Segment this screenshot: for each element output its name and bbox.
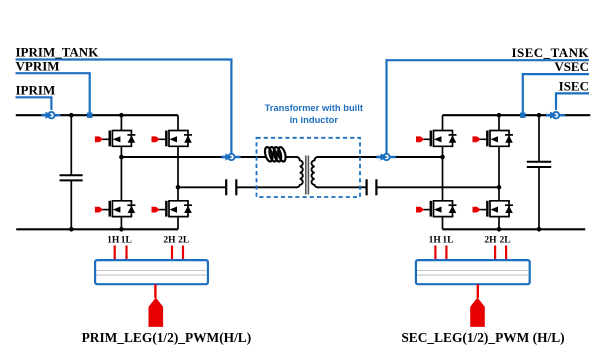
svg-text:2H: 2H [484, 236, 497, 246]
junction: primary cap / top rail [69, 113, 74, 118]
label: Transformer with built in inductor [265, 102, 363, 125]
wire: secondary output cap branch top [538, 115, 540, 162]
node: ISEC_TANK current probe [377, 153, 396, 160]
gate tick 1H secondary [434, 246, 436, 261]
junction: secondary cap / bottom rail [537, 227, 542, 232]
transformer T1 secondary winding [312, 157, 318, 187]
gate tick 2L primary [182, 246, 184, 261]
junction: primary leg1 / bottom rail [119, 227, 124, 232]
node: IPRIM current probe [41, 112, 60, 119]
wire: sec leg2 middle [498, 146, 500, 201]
svg-text:2L: 2L [178, 236, 189, 246]
svg-text:1L: 1L [442, 236, 453, 246]
wire: leg1 source lower [120, 217, 122, 230]
wire: transformer secondary top to sec bridge [317, 156, 443, 158]
svg-text:SEC_LEG(1/2)_PWM (H/L): SEC_LEG(1/2)_PWM (H/L) [401, 330, 564, 345]
wire: ISEC_TANK blue lead [387, 60, 590, 153]
transistor Q2L secondary [473, 201, 513, 217]
gate tick 1L secondary [445, 246, 447, 261]
node: ISEC current probe [546, 112, 565, 119]
wire: secondary output cap branch bottom [538, 167, 540, 229]
wire: leg1 middle [120, 146, 122, 201]
junction: primary leg1 / top rail [119, 113, 124, 118]
svg-text:2H: 2H [163, 236, 176, 246]
junction: secondary leg2 / bottom rail [497, 227, 502, 232]
gate tick 2L secondary [505, 246, 507, 261]
wire: ISEC blue lead [556, 93, 589, 110]
wire: VSEC blue lead [523, 74, 589, 115]
gate tick 1L primary [125, 246, 127, 261]
wire: leg2 drain upper [177, 115, 179, 130]
svg-text:ISEC: ISEC [559, 78, 589, 93]
wire: sec leg1 source lower [442, 217, 444, 230]
wire: leg2 middle [177, 146, 179, 201]
svg-text:ISEC_TANK: ISEC_TANK [512, 45, 590, 60]
junction: secondary leg2 mid wire [497, 185, 502, 190]
junction: primary cap / bottom rail [69, 227, 74, 232]
junction: secondary leg1 midpoint [440, 155, 445, 160]
wire: sec leg2 drain upper [498, 115, 500, 130]
PWM driver block primary [95, 260, 208, 284]
wire: cap to transformer primary bottom [236, 186, 297, 188]
transistor Q2H secondary [473, 131, 513, 147]
probe marker secondary [470, 298, 485, 327]
wire: IPRIM_TANK blue lead [16, 60, 232, 154]
probe marker primary [149, 298, 164, 327]
wire: cap to secondary leg2 midpoint [376, 186, 499, 188]
wire: IPRIM blue lead [16, 97, 52, 110]
probe lead secondary [477, 284, 479, 298]
svg-text:1H: 1H [429, 236, 442, 246]
capacitor C_out secondary [527, 162, 551, 167]
transformer T1 primary winding [296, 157, 302, 187]
gate tick 1H primary [114, 246, 116, 261]
wire: primary top rail [16, 114, 178, 116]
junction: secondary leg2 / top rail [497, 113, 502, 118]
capacitor C_in primary [60, 175, 83, 180]
wire: VPRIM blue lead [16, 73, 90, 115]
wire: sec leg1 drain upper [442, 115, 444, 130]
wire: secondary bottom rail [443, 228, 586, 230]
transistor Q1H primary [95, 131, 135, 147]
node: IPRIM_TANK current probe [221, 153, 240, 160]
wire: secondary top rail [443, 114, 591, 116]
svg-text:1H: 1H [107, 236, 120, 246]
svg-text:VSEC: VSEC [554, 59, 589, 74]
capacitor C_block secondary [367, 179, 377, 195]
transistor Q2H primary [152, 131, 192, 147]
svg-text:PRIM_LEG(1/2)_PWM(H/L): PRIM_LEG(1/2)_PWM(H/L) [82, 330, 252, 345]
inductor L_tank [264, 146, 287, 162]
svg-text:IPRIM: IPRIM [16, 82, 56, 97]
junction: VSEC square [520, 113, 525, 118]
wire: primary leg2 midpoint wire [178, 186, 226, 188]
probe lead primary [154, 284, 156, 298]
transistor Q1H secondary [416, 131, 456, 147]
junction: primary leg2 midpoint [176, 185, 181, 190]
gate tick 2H secondary [494, 246, 496, 261]
svg-text:in inductor: in inductor [290, 114, 339, 125]
transistor Q2L primary [152, 201, 192, 217]
transformer T1 core [306, 156, 309, 195]
wire: sec leg1 middle [442, 146, 444, 201]
wire: primary bottom rail [16, 228, 178, 230]
wire: leg1 drain upper [120, 115, 122, 130]
junction: primary leg1 midpoint [119, 155, 124, 160]
wire: leg2 source lower [177, 217, 179, 230]
transformer annotation box [257, 138, 361, 197]
svg-text:2L: 2L [499, 236, 510, 246]
junction: VPRIM square [87, 113, 92, 118]
capacitor C_block primary [226, 179, 236, 195]
svg-text:Transformer with built: Transformer with built [265, 102, 363, 113]
PWM driver block secondary [416, 260, 530, 284]
wire: inductor to transformer primary top [286, 156, 298, 158]
svg-text:VPRIM: VPRIM [16, 58, 60, 73]
gate tick 2H primary [171, 246, 173, 261]
wire: sec leg2 source lower [498, 217, 500, 230]
wire: primary input cap branch bottom [70, 180, 72, 229]
wire: transformer secondary bottom to cap [317, 186, 367, 188]
svg-text:1L: 1L [121, 236, 132, 246]
junction: secondary cap / top rail [537, 113, 542, 118]
wire: primary input cap branch top [70, 115, 72, 175]
wire: primary tank wire [121, 156, 266, 158]
transistor Q1L secondary [416, 201, 456, 217]
transistor Q1L primary [95, 201, 135, 217]
